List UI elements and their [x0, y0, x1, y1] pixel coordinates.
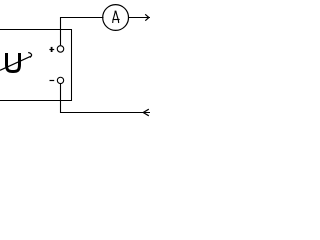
ammeter circle	[103, 5, 129, 31]
wire from - terminal down through box edge to bottom wire	[60, 84, 62, 114]
terminal circle -	[57, 77, 63, 83]
ammeter letter A	[113, 11, 120, 23]
top wire to ammeter	[60, 17, 104, 19]
plus sign label	[49, 49, 54, 51]
power supply box (open at left image edge)	[0, 30, 72, 101]
arrowhead pointing right (current out)	[145, 14, 149, 20]
output wire top right	[128, 17, 150, 19]
variable-voltage arrow head	[28, 53, 31, 58]
bottom return wire	[60, 112, 150, 114]
minus sign label	[50, 80, 55, 82]
wire from + terminal up through box edge to top wire	[60, 17, 62, 45]
arrowhead pointing left (current return)	[143, 109, 149, 116]
variable-voltage arrow shaft over U	[0, 56, 31, 70]
terminal circle +	[57, 46, 64, 53]
voltage symbol U	[7, 53, 20, 72]
